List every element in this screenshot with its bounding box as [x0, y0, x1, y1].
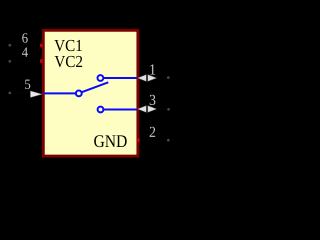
pin 3 lead — [139, 108, 169, 110]
pin 2 lead — [140, 139, 169, 141]
pin 5 end dot — [9, 92, 12, 95]
pin 2 number label — [150, 127, 156, 137]
wire lower throw to right edge — [104, 109, 137, 111]
pin 1 number label — [150, 64, 155, 74]
switch throw contact upper — [98, 75, 104, 81]
pin 6 lead — [10, 44, 42, 46]
switch lever — [82, 82, 109, 92]
pin 4 lead — [10, 60, 42, 62]
pin 4 connection tick — [40, 59, 42, 63]
pin 4 number label — [22, 47, 28, 56]
label VC2 — [55, 56, 83, 67]
component body U1 (switch block) — [43, 30, 138, 156]
pin 6 number label — [22, 33, 27, 43]
pin 6 end dot — [9, 44, 12, 47]
pin 6 connection tick — [40, 44, 42, 48]
label VC1 — [54, 40, 81, 51]
pin 3 bidirectional arrows — [138, 106, 147, 113]
pin 5 number label — [25, 80, 30, 89]
pin 1 lead — [139, 77, 168, 79]
pin 5 input arrow — [30, 91, 42, 98]
switch throw contact lower — [98, 107, 104, 113]
pin 1 end dot — [167, 76, 170, 79]
pin 2 connection tick — [137, 138, 139, 142]
wire upper throw to right edge — [104, 77, 137, 79]
pin 1 bidirectional arrows — [138, 75, 147, 82]
pin 3 number label — [150, 95, 156, 105]
switch pole contact circle — [76, 91, 82, 97]
label GND — [94, 135, 126, 147]
pin 5 lead — [10, 92, 42, 94]
wire pole to left edge — [44, 92, 76, 94]
pin 2 end dot — [167, 139, 170, 142]
pin 4 end dot — [9, 60, 12, 63]
pin 3 end dot — [167, 108, 170, 111]
